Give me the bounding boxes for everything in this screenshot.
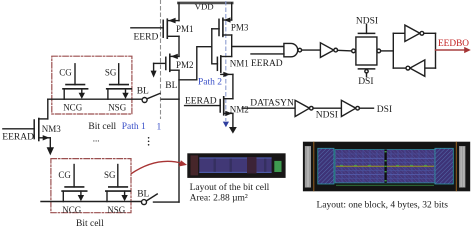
- wire NM3 drain up to bit cell rail: [47, 99, 49, 119]
- VDD rail: [178, 2, 232, 5]
- svg-text:BL: BL: [165, 81, 177, 91]
- transistor NM3: [34, 119, 61, 141]
- svg-text:NDSI: NDSI: [356, 16, 378, 26]
- transistor NCG (cell 2): [62, 165, 87, 215]
- wire PM3 drain to NM1 drain: [231, 35, 233, 57]
- layout image of the bit cell: [187, 153, 285, 178]
- svg-text:NM1: NM1: [230, 59, 249, 69]
- transistor PM3: [219, 3, 249, 37]
- inverter U6: [341, 100, 359, 116]
- wire to transmission gate: [338, 49, 352, 52]
- bit cell 2 box: [51, 159, 131, 213]
- svg-text:Bit cell: Bit cell: [76, 219, 104, 226]
- svg-text:DATASYN: DATASYN: [250, 98, 294, 108]
- svg-text:DSI: DSI: [377, 105, 392, 115]
- svg-text:Area: 2.88 µm²: Area: 2.88 µm²: [190, 194, 248, 204]
- svg-text:SG: SG: [104, 170, 116, 180]
- svg-text:PM1: PM1: [176, 24, 194, 34]
- wire switch 2 to BL vertical: [154, 201, 180, 203]
- svg-text:EERD: EERD: [134, 33, 159, 43]
- wire DSI: [359, 107, 373, 109]
- wire NM2 gate lead: [185, 105, 221, 107]
- path 2 dashed boundary: [225, 2, 227, 121]
- svg-text:EERAD: EERAD: [2, 133, 34, 143]
- transistor PM1: [163, 3, 193, 38]
- wire EERAD-bar output node to NAND: [232, 46, 284, 48]
- switch BL 1: [142, 93, 160, 102]
- wire PM1 drain to PM2 source: [178, 36, 180, 56]
- svg-text:BL: BL: [137, 190, 149, 200]
- svg-text:EEDBO: EEDBO: [438, 39, 469, 49]
- transistor NCG (cell 1): [63, 64, 88, 113]
- inverter U2: [320, 43, 337, 58]
- wire NAND out: [302, 49, 321, 51]
- inverter U5: [295, 100, 313, 116]
- layout image one block: [303, 142, 470, 192]
- wire BL vertical: [178, 70, 180, 202]
- svg-text:EERAD: EERAD: [251, 59, 283, 69]
- transistor NSG (cell 1): [107, 64, 132, 113]
- svg-text:Path 2: Path 2: [198, 77, 222, 87]
- wire NM1 source to NM2 drain: [232, 74, 234, 98]
- wire NM1 gate lead: [212, 47, 218, 64]
- wire switch 1 to BL vertical: [161, 98, 179, 100]
- transistor NM2: [220, 97, 249, 116]
- latch U4 feedback loop: [393, 25, 435, 76]
- transmission gate U3: [352, 25, 381, 77]
- svg-text:VDD: VDD: [195, 2, 214, 12]
- wire BL branch to inverter gates: [179, 29, 212, 80]
- svg-text:NCG: NCG: [62, 205, 82, 215]
- svg-text:PM3: PM3: [231, 23, 249, 33]
- wire PM3 gate lead: [212, 28, 219, 30]
- svg-text:BL: BL: [137, 87, 149, 97]
- arrow NM3 source down: [47, 138, 54, 156]
- path 2 end arrow: [223, 122, 229, 128]
- bit cell 1 box: [52, 56, 132, 114]
- svg-text:Path 1: Path 1: [122, 122, 146, 132]
- transistor NM1: [217, 56, 248, 77]
- wire NDSI: [313, 107, 341, 109]
- node vertical ellipsis: [148, 137, 150, 146]
- transistor NSG (cell 2): [106, 165, 131, 215]
- wire TG to latch: [381, 50, 394, 52]
- svg-text:Bit cell: Bit cell: [88, 122, 116, 132]
- svg-text:PM2: PM2: [176, 60, 194, 70]
- svg-text:NDSI: NDSI: [316, 110, 338, 120]
- nand U1: [251, 43, 302, 56]
- svg-text:DSI: DSI: [358, 77, 373, 87]
- svg-text:NSG: NSG: [107, 205, 126, 215]
- path 1 dashed boundary: [160, 0, 162, 119]
- svg-text:NSG: NSG: [108, 103, 127, 113]
- wire DATASYN input: [243, 107, 295, 109]
- svg-text:NCG: NCG: [63, 103, 83, 113]
- svg-text:...: ...: [93, 134, 100, 144]
- svg-text:1: 1: [157, 122, 162, 132]
- ground at NM2 source: [229, 113, 237, 133]
- arrow red callout to layout: [131, 160, 187, 174]
- svg-text:SG: SG: [105, 68, 117, 78]
- transistor PM2: [151, 54, 194, 78]
- svg-text:Layout of the bit cell: Layout of the bit cell: [190, 182, 270, 193]
- svg-text:CG: CG: [59, 68, 72, 78]
- wire EEDBO red output: [436, 47, 471, 53]
- wire bit cell 2 source rail: [41, 201, 142, 203]
- wire EERD input: [131, 27, 163, 29]
- svg-text:CG: CG: [58, 170, 71, 180]
- svg-text:NM3: NM3: [42, 124, 62, 134]
- switch BL 2: [142, 194, 158, 205]
- wire bit cell 1 source rail: [48, 98, 142, 100]
- wire NM3 gate lead: [3, 128, 34, 130]
- svg-text:Layout: one block, 4 bytes, 32: Layout: one block, 4 bytes, 32 bits: [317, 200, 449, 210]
